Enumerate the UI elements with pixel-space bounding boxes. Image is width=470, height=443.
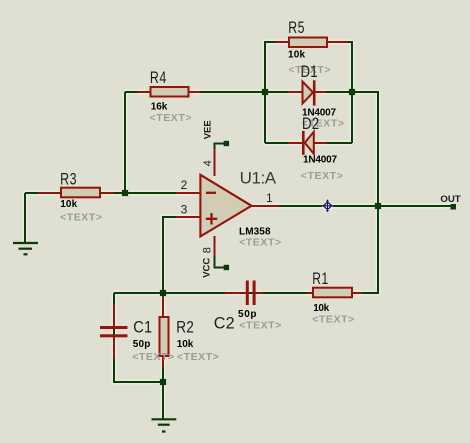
svg-text:U1:A: U1:A <box>240 169 277 188</box>
svg-text:1N4007: 1N4007 <box>302 107 336 118</box>
svg-text:3: 3 <box>181 202 188 216</box>
svg-text:16k: 16k <box>151 102 168 113</box>
svg-text:LM358: LM358 <box>239 226 271 237</box>
svg-text:R4: R4 <box>150 69 167 87</box>
svg-text:10k: 10k <box>288 50 305 61</box>
svg-text:8: 8 <box>202 247 214 253</box>
svg-text:<TEXT>: <TEXT> <box>150 112 192 124</box>
svg-text:<TEXT>: <TEXT> <box>301 170 343 182</box>
svg-text:4: 4 <box>202 160 214 166</box>
svg-text:<TEXT>: <TEXT> <box>177 351 219 363</box>
svg-text:10k: 10k <box>313 303 329 314</box>
svg-text:OUT: OUT <box>440 194 460 205</box>
svg-text:R2: R2 <box>176 318 194 337</box>
svg-text:2: 2 <box>181 178 188 192</box>
svg-text:10k: 10k <box>177 339 194 350</box>
svg-text:<TEXT>: <TEXT> <box>132 351 174 363</box>
svg-text:R3: R3 <box>60 171 77 189</box>
svg-text:VCC: VCC <box>202 258 213 278</box>
svg-text:1N4007: 1N4007 <box>303 154 337 165</box>
svg-text:R5: R5 <box>288 19 305 37</box>
svg-text:<TEXT>: <TEXT> <box>312 314 354 326</box>
svg-text:D1: D1 <box>301 63 318 82</box>
svg-text:C1: C1 <box>133 318 152 336</box>
svg-text:1: 1 <box>266 191 273 205</box>
svg-text:R1: R1 <box>312 270 328 288</box>
svg-text:<TEXT>: <TEXT> <box>239 320 281 332</box>
svg-text:10k: 10k <box>60 199 77 210</box>
svg-text:50p: 50p <box>238 309 257 320</box>
svg-text:<TEXT>: <TEXT> <box>239 237 281 249</box>
svg-text:<TEXT>: <TEXT> <box>60 212 102 224</box>
svg-text:VEE: VEE <box>202 120 213 139</box>
svg-text:C2: C2 <box>214 313 235 332</box>
svg-text:50p: 50p <box>133 339 151 350</box>
